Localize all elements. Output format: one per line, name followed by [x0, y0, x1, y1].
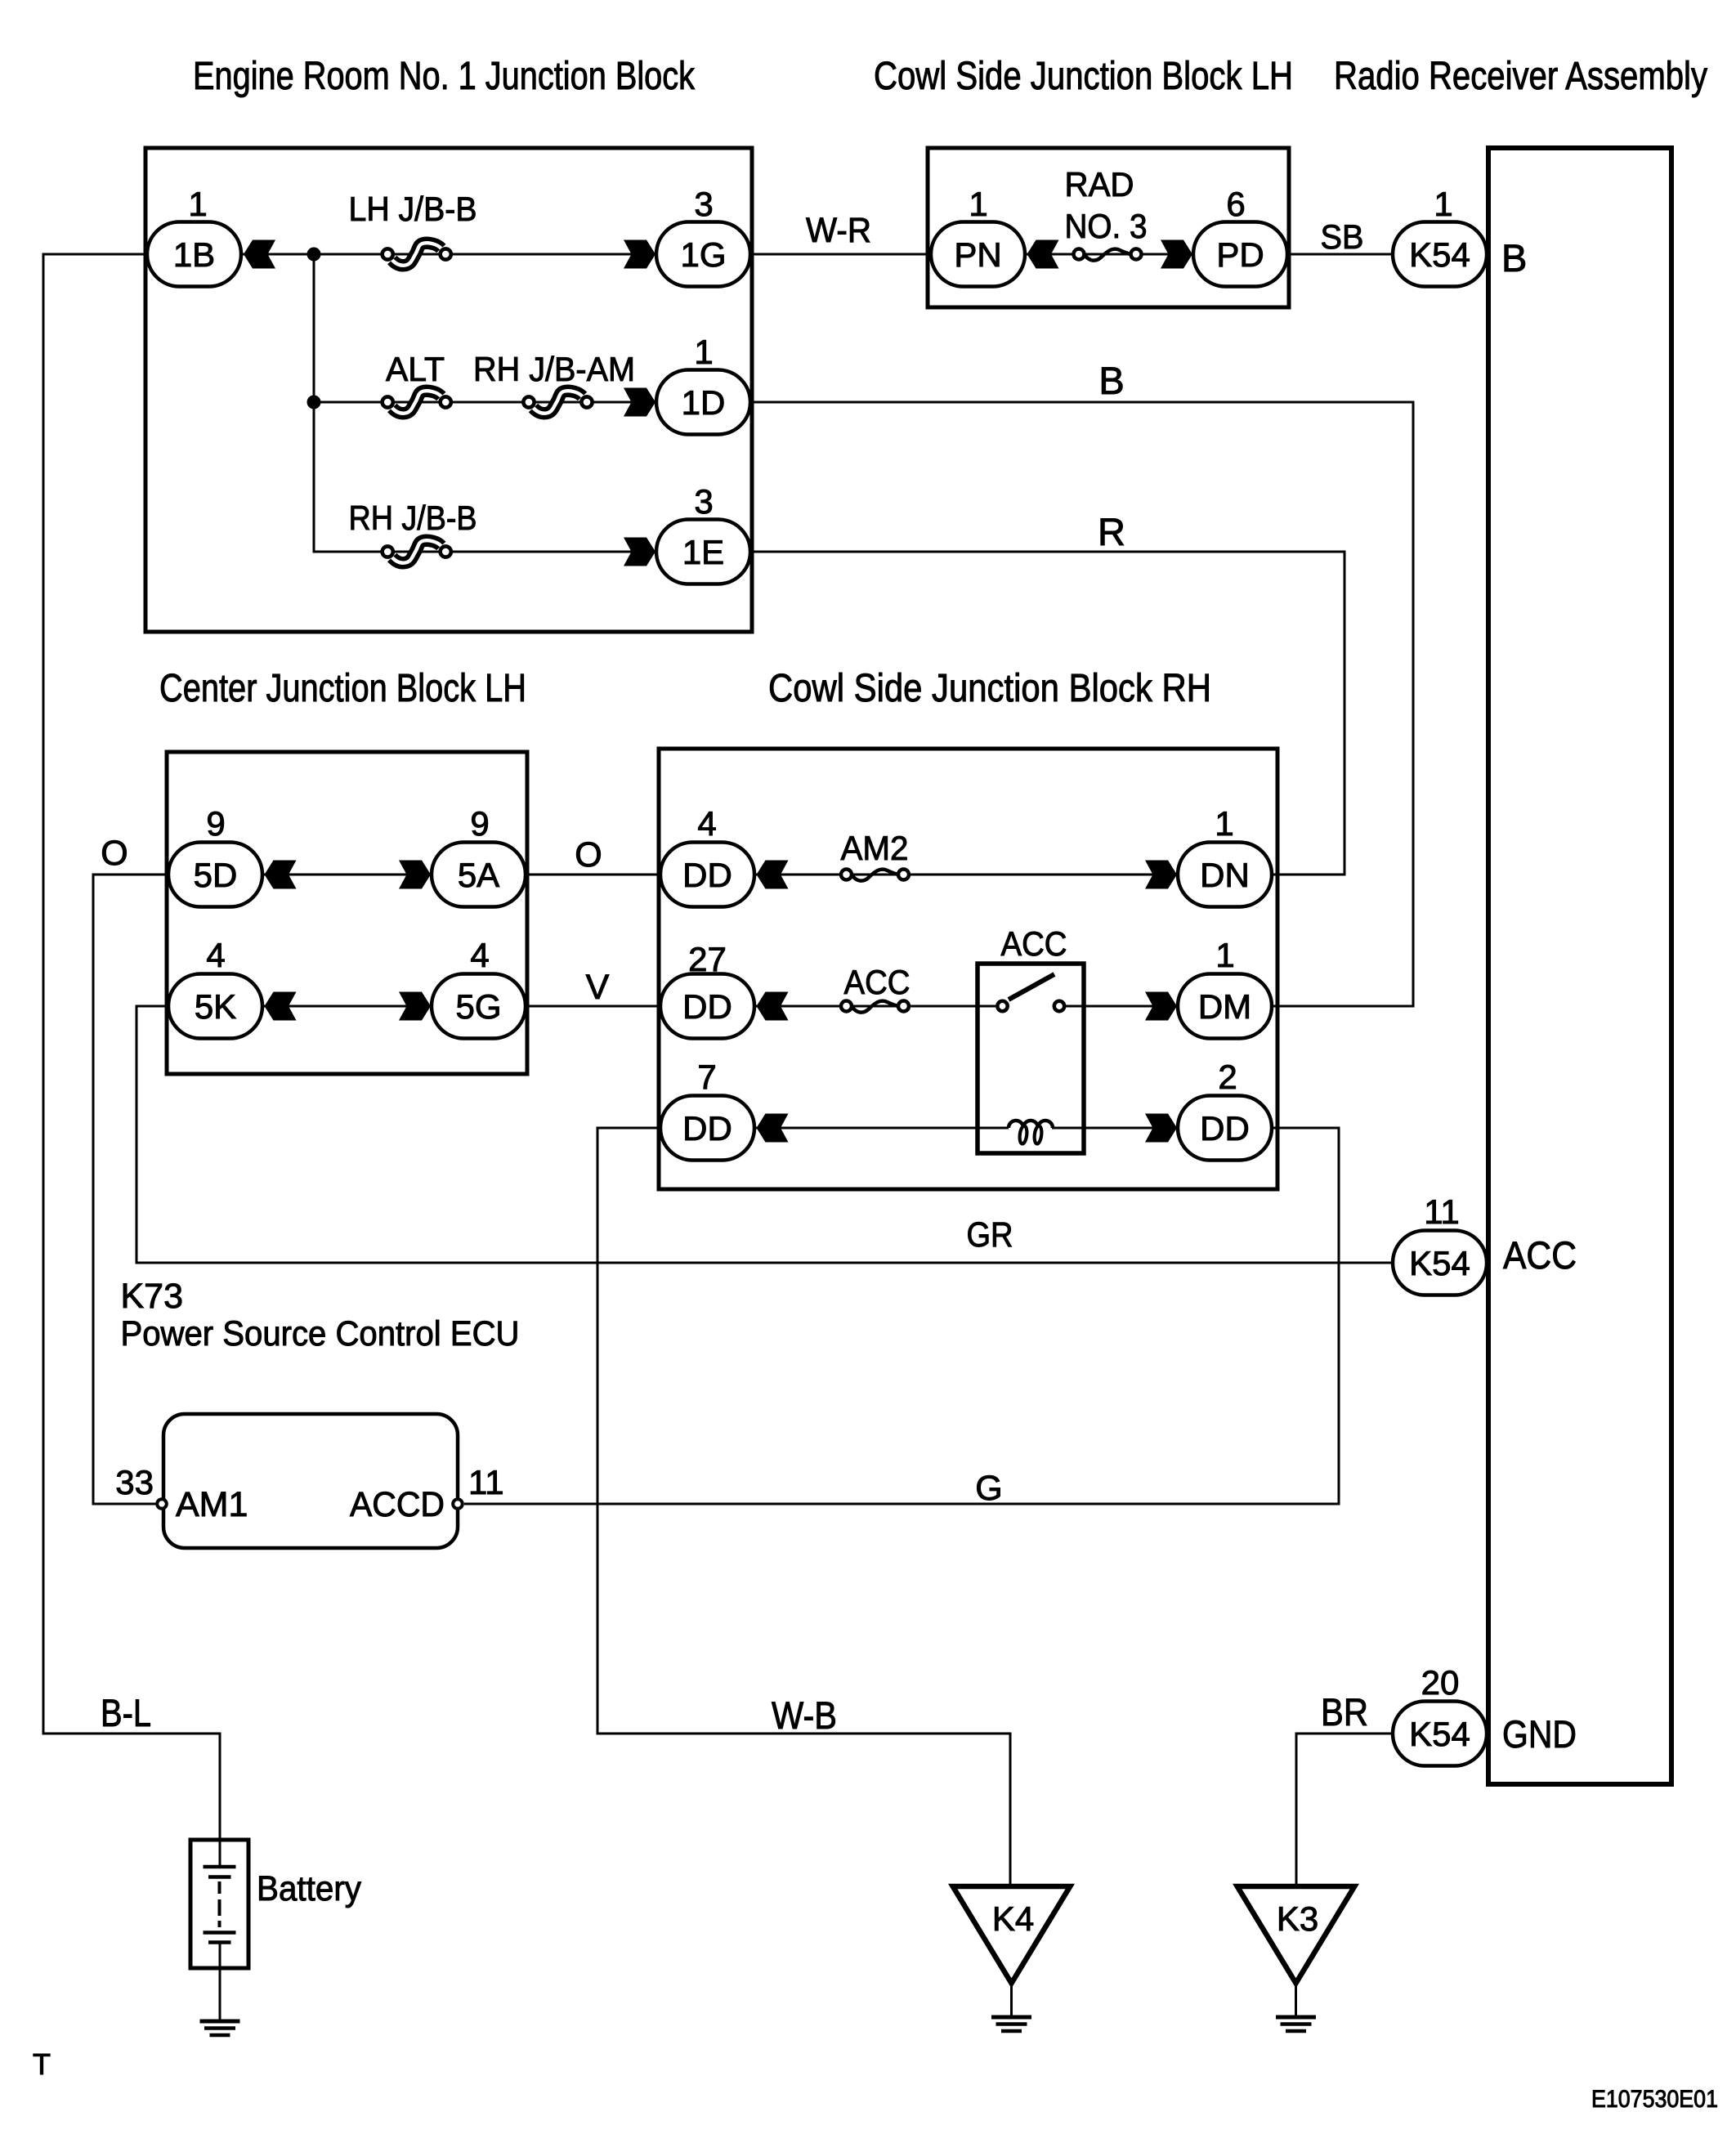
- svg-text:1: 1: [1215, 804, 1233, 843]
- svg-text:NO. 3: NO. 3: [1065, 207, 1148, 245]
- svg-text:PD: PD: [1216, 235, 1264, 274]
- svg-text:1: 1: [1434, 185, 1452, 223]
- svg-text:GR: GR: [967, 1215, 1013, 1255]
- svg-text:T: T: [33, 2047, 51, 2081]
- svg-text:1B: 1B: [173, 235, 215, 274]
- svg-text:6: 6: [1226, 185, 1245, 223]
- svg-text:ALT: ALT: [386, 350, 445, 388]
- svg-text:V: V: [586, 968, 610, 1007]
- svg-text:2: 2: [1218, 1058, 1237, 1096]
- svg-text:W-R: W-R: [806, 211, 871, 250]
- svg-text:33: 33: [115, 1463, 154, 1501]
- svg-text:5G: 5G: [455, 987, 501, 1026]
- svg-text:PN: PN: [954, 235, 1001, 274]
- svg-text:5K: 5K: [195, 987, 236, 1026]
- svg-text:B-L: B-L: [101, 1691, 151, 1734]
- svg-text:3: 3: [694, 482, 713, 521]
- svg-text:Power Source Control ECU: Power Source Control ECU: [121, 1314, 520, 1353]
- svg-text:Radio Receiver Assembly: Radio Receiver Assembly: [1334, 55, 1707, 98]
- svg-text:ACCD: ACCD: [350, 1485, 445, 1524]
- svg-text:O: O: [101, 834, 128, 873]
- svg-text:O: O: [575, 835, 602, 875]
- svg-text:Engine Room No. 1 Junction Blo: Engine Room No. 1 Junction Block: [193, 55, 696, 98]
- svg-text:9: 9: [206, 804, 225, 843]
- svg-text:K54: K54: [1409, 235, 1470, 274]
- svg-text:Center Junction Block LH: Center Junction Block LH: [159, 667, 526, 710]
- svg-text:K73: K73: [121, 1277, 184, 1316]
- svg-text:DD: DD: [682, 856, 732, 894]
- svg-text:1E: 1E: [682, 533, 724, 571]
- svg-text:K54: K54: [1409, 1715, 1470, 1753]
- svg-text:27: 27: [688, 940, 727, 978]
- svg-text:ACC: ACC: [844, 963, 911, 1001]
- svg-text:1D: 1D: [682, 383, 726, 422]
- svg-text:LH J/B-B: LH J/B-B: [349, 190, 477, 228]
- svg-text:3: 3: [694, 185, 713, 223]
- svg-text:K3: K3: [1277, 1899, 1318, 1938]
- svg-text:E107530E01: E107530E01: [1591, 2086, 1718, 2113]
- svg-text:11: 11: [1424, 1192, 1460, 1231]
- svg-text:1: 1: [694, 333, 713, 371]
- svg-text:4: 4: [470, 936, 489, 974]
- svg-text:5D: 5D: [194, 856, 238, 894]
- svg-text:RH J/B-AM: RH J/B-AM: [473, 350, 635, 388]
- svg-text:AM2: AM2: [841, 829, 909, 867]
- svg-text:B: B: [1501, 236, 1527, 280]
- svg-text:ACC: ACC: [1503, 1233, 1577, 1277]
- svg-text:4: 4: [206, 936, 225, 974]
- svg-text:DD: DD: [682, 1109, 732, 1148]
- svg-text:B: B: [1098, 359, 1124, 402]
- svg-text:DD: DD: [1200, 1109, 1250, 1148]
- svg-text:R: R: [1098, 510, 1125, 553]
- svg-text:1: 1: [969, 185, 987, 223]
- svg-text:AM1: AM1: [176, 1485, 248, 1524]
- svg-text:ACC: ACC: [1001, 924, 1067, 963]
- svg-text:1: 1: [188, 185, 207, 223]
- svg-text:DN: DN: [1200, 856, 1250, 894]
- svg-text:Cowl Side Junction Block RH: Cowl Side Junction Block RH: [768, 667, 1211, 710]
- svg-text:SB: SB: [1321, 217, 1364, 256]
- svg-text:7: 7: [697, 1058, 716, 1096]
- svg-text:11: 11: [468, 1463, 504, 1501]
- svg-text:DM: DM: [1198, 987, 1251, 1026]
- svg-text:BR: BR: [1321, 1690, 1368, 1734]
- svg-text:G: G: [975, 1469, 1002, 1508]
- svg-text:RAD: RAD: [1065, 165, 1134, 204]
- svg-text:GND: GND: [1502, 1712, 1577, 1756]
- svg-text:Cowl Side Junction Block LH: Cowl Side Junction Block LH: [874, 55, 1293, 98]
- svg-text:K54: K54: [1409, 1244, 1470, 1282]
- svg-text:9: 9: [470, 804, 489, 843]
- svg-text:5A: 5A: [458, 856, 499, 894]
- svg-text:20: 20: [1421, 1663, 1460, 1702]
- svg-text:W-B: W-B: [772, 1693, 837, 1737]
- svg-text:RH J/B-B: RH J/B-B: [349, 499, 477, 537]
- svg-text:K4: K4: [992, 1899, 1034, 1938]
- svg-text:Battery: Battery: [257, 1869, 361, 1908]
- svg-text:4: 4: [697, 804, 716, 843]
- svg-text:1G: 1G: [680, 235, 726, 274]
- svg-text:DD: DD: [682, 987, 732, 1026]
- svg-text:1: 1: [1215, 936, 1234, 974]
